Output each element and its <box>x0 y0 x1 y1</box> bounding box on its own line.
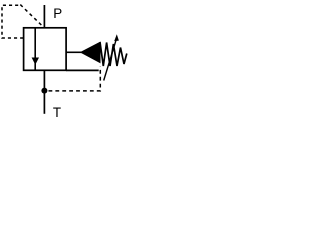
svg-text:T: T <box>53 105 61 120</box>
svg-text:P: P <box>53 6 62 21</box>
